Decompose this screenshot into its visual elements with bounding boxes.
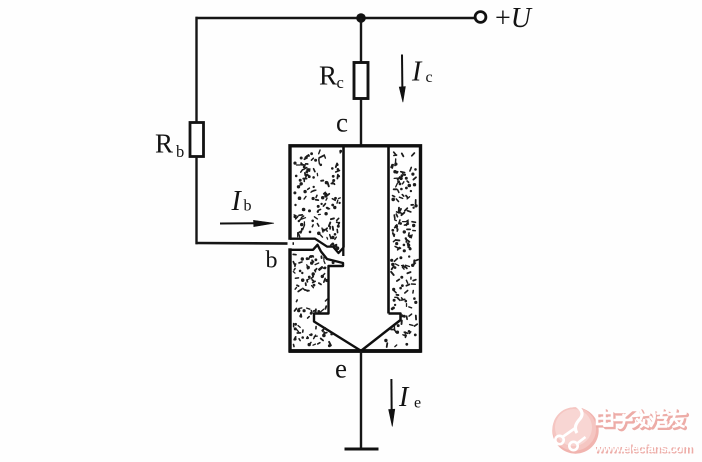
svg-text:c: c — [337, 73, 344, 92]
svg-text:b: b — [176, 142, 184, 161]
stipple lower-left base region — [293, 254, 334, 346]
watermark chinese characters (vector approximation) — [598, 411, 687, 429]
node junction dot — [356, 13, 366, 23]
emitter arrow right barb — [361, 314, 400, 351]
current arrow Ic — [399, 55, 405, 103]
svg-text:c: c — [336, 108, 348, 138]
wire left vertical from rail to Rb — [195, 17, 197, 124]
watermark logo disc — [552, 406, 598, 454]
lower base region jagged outline — [290, 245, 361, 351]
wire from rail down to Rc — [360, 18, 362, 64]
svg-text:I: I — [398, 382, 410, 413]
wire from Rc down to collector c — [360, 99, 362, 148]
wire emitter down to ground — [360, 351, 362, 449]
stipple upper-left base region — [294, 150, 342, 250]
ground bar — [345, 448, 379, 451]
svg-text:b: b — [244, 198, 252, 215]
current arrow Ib — [220, 220, 274, 226]
base channel stub below shaft edge — [342, 248, 344, 257]
wire left vertical from Rb to base corner — [195, 157, 197, 245]
svg-text:R: R — [155, 129, 173, 159]
transistor inner edge left of collector shaft — [342, 146, 345, 248]
terminal circle +U — [475, 12, 486, 23]
base channel opening in left box edge — [288, 240, 293, 249]
transistor inner edge right of shaft — [387, 146, 390, 314]
svg-text:e: e — [414, 395, 421, 412]
svg-text:I: I — [231, 186, 243, 217]
stipple right collector region — [385, 152, 419, 347]
svg-text:e: e — [335, 354, 347, 384]
svg-text:b: b — [266, 248, 278, 274]
svg-text:I: I — [411, 57, 423, 88]
wire top horizontal rail — [196, 17, 475, 19]
resistor Rc — [354, 63, 368, 99]
svg-text:R: R — [319, 61, 337, 91]
svg-text:c: c — [426, 69, 433, 86]
svg-text:www.elecfans.com: www.elecfans.com — [593, 441, 692, 455]
wire base horizontal into b — [196, 242, 295, 245]
current arrow Ie — [389, 379, 395, 427]
transistor body outer box — [290, 146, 421, 351]
base channel top zigzag boundary — [290, 239, 344, 253]
transistor box bottom edge emphasis — [289, 349, 422, 353]
svg-text:+U: +U — [495, 3, 533, 34]
resistor Rb — [190, 123, 204, 157]
